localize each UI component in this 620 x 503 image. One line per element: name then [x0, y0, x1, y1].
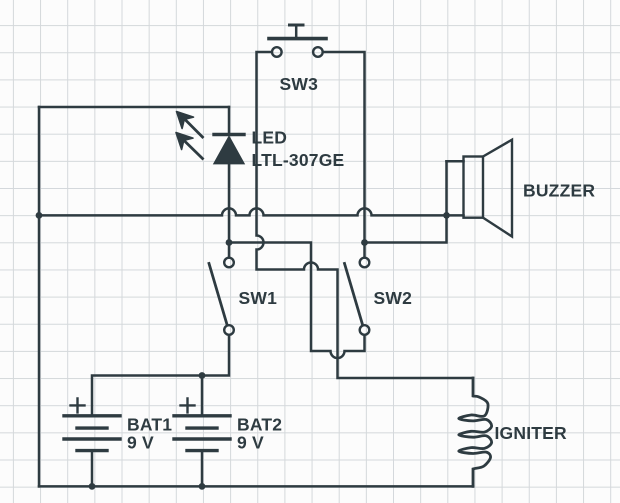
buzzer speaker symbol: [464, 140, 513, 237]
battery BAT2: [174, 398, 230, 450]
wire: node B to buzzer riser: [365, 161, 447, 242]
svg-text:BUZZER: BUZZER: [523, 181, 595, 201]
wire: buzzer top pin stub: [447, 160, 464, 163]
node: junction dot bus / buzzer: [443, 212, 450, 219]
wire: SW3 left terminal stub and drop (wire B): [257, 52, 474, 378]
svg-text:SW1: SW1: [239, 288, 278, 308]
svg-text:9 V: 9 V: [127, 433, 154, 453]
LED LTL-307GE: [176, 112, 244, 164]
wire: SW1 bottom to battery tops: [92, 336, 229, 416]
wire: buzzer bottom pin stub: [447, 214, 464, 217]
node: junction dot BAT1 bottom: [89, 483, 96, 490]
node: junction dot BAT2 bottom: [199, 483, 206, 490]
wire: node A down to SW1: [228, 243, 231, 258]
svg-text:9 V: 9 V: [237, 433, 264, 453]
wire: BAT1 bottom lead: [91, 451, 94, 487]
wire: left rail vertical: [38, 107, 41, 486]
switch SW3 pushbutton: [269, 25, 326, 57]
node: junction dot left rail / bus: [36, 212, 43, 219]
battery BAT1: [64, 398, 120, 450]
svg-text:IGNITER: IGNITER: [495, 423, 568, 443]
wire: top loop horizontal: [39, 106, 229, 109]
svg-text:BAT1: BAT1: [127, 415, 172, 435]
wire: LED cathode lead: [228, 107, 231, 135]
node A junction dot: [226, 239, 233, 246]
svg-text:SW2: SW2: [374, 288, 413, 308]
svg-text:SW3: SW3: [280, 74, 319, 94]
node: junction dot BAT2 top: [199, 372, 206, 379]
svg-text:LTL-307GE: LTL-307GE: [252, 150, 345, 170]
wire: LED anode lead down to node A: [228, 163, 231, 242]
wire: BAT2 bottom lead: [201, 451, 204, 487]
wire: BAT2 top lead: [201, 376, 204, 416]
node B junction dot: [361, 239, 368, 246]
wire: node A to vertical riser: [229, 243, 365, 359]
svg-text:BAT2: BAT2: [237, 415, 282, 435]
wire: bottom bus: [39, 485, 473, 488]
inductor IGNITER coil: [459, 378, 492, 486]
switch SW2: [345, 258, 370, 335]
switch SW1: [209, 258, 234, 335]
wire: SW3 right terminal stub and drop: [323, 52, 364, 243]
svg-text:LED: LED: [252, 128, 288, 148]
wire: main bus with hops: [39, 208, 447, 215]
wire: node B down to SW2: [363, 243, 366, 258]
